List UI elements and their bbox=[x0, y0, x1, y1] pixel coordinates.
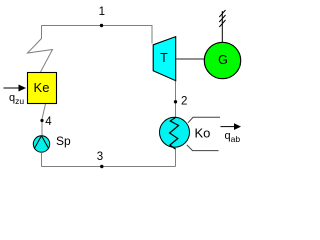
wire: cooling water inlet pipe bbox=[188, 117, 220, 123]
svg-text:Ke: Ke bbox=[34, 80, 50, 95]
shaft turbine to generator bbox=[176, 58, 205, 60]
node 1 bbox=[100, 24, 103, 27]
wire: generator output line to grid bbox=[221, 11, 223, 42]
wire: cooling water outlet pipe bbox=[187, 145, 219, 151]
generator G bbox=[204, 42, 240, 78]
node 2 bbox=[174, 100, 177, 103]
svg-text:2: 2 bbox=[181, 96, 187, 108]
svg-text:qzu: qzu bbox=[9, 92, 24, 106]
svg-text:4: 4 bbox=[45, 116, 52, 128]
svg-text:Ko: Ko bbox=[195, 125, 211, 140]
svg-text:G: G bbox=[218, 53, 228, 67]
node 3 bbox=[100, 165, 103, 168]
wire: riser bottom line to condenser bbox=[175, 148, 177, 167]
turbine T bbox=[153, 37, 176, 81]
wire: boiler zigzag (lightning) from top wire down to Ke box bbox=[28, 26, 53, 73]
boiler Ke bbox=[28, 73, 57, 104]
wire: turbine outlet down to condenser bbox=[175, 81, 177, 117]
node 4 bbox=[40, 119, 43, 122]
wire: bottom condensate line bbox=[42, 166, 176, 168]
wire: pump to bottom line bbox=[41, 152, 43, 166]
heat output arrow q_ab bbox=[221, 126, 236, 128]
svg-text:T: T bbox=[160, 51, 168, 65]
wire: top steam line from boiler zigzag to turbine bbox=[42, 26, 153, 44]
pump Sp bbox=[33, 136, 49, 152]
svg-text:Sp: Sp bbox=[56, 134, 71, 148]
condenser Ko bbox=[160, 117, 190, 147]
svg-text:3: 3 bbox=[97, 151, 103, 163]
grid connection slashes bbox=[219, 10, 225, 17]
heat input arrow q_zu bbox=[4, 87, 20, 89]
svg-text:1: 1 bbox=[99, 6, 105, 18]
svg-text:qab: qab bbox=[225, 130, 241, 144]
wire: Ke bottom to pump bbox=[42, 104, 46, 136]
